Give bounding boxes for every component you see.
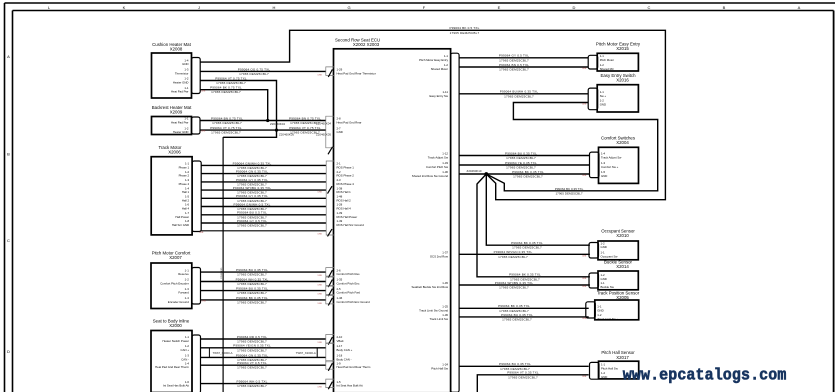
- svg-text:X2017: X2017: [616, 355, 629, 360]
- svg-text:X2000: X2000: [169, 323, 182, 328]
- svg-text:D: D: [573, 5, 576, 10]
- svg-text:Encoder Ground: Encoder Ground: [168, 300, 189, 304]
- svg-text:Hall 2: Hall 2: [182, 198, 190, 202]
- svg-text:X2009: X2009: [170, 109, 183, 114]
- svg-text:Phase 2: Phase 2: [179, 174, 190, 178]
- svg-text:GND: GND: [601, 375, 607, 379]
- svg-text:Comfort Pitch Fwd: Comfort Pitch Fwd: [337, 291, 361, 295]
- svg-text:GND: GND: [337, 130, 343, 134]
- svg-text:10RM: 10RM: [318, 303, 323, 305]
- svg-text:X2002 X2003: X2002 X2003: [353, 42, 380, 47]
- svg-text:P99064 GY 0.5 TXL: P99064 GY 0.5 TXL: [237, 219, 267, 223]
- svg-text:P99064 WH/BU 0.35 TXL: P99064 WH/BU 0.35 TXL: [233, 186, 272, 190]
- svg-text:Z20460K05: Z20460K05: [221, 267, 223, 279]
- svg-text:17965 DEM25CBL7: 17965 DEM25CBL7: [506, 156, 536, 160]
- svg-text:P99064 BN 0.75 TXL: P99064 BN 0.75 TXL: [289, 116, 321, 120]
- svg-text:10RM: 10RM: [199, 232, 204, 234]
- svg-text:P99064 BK 0.35 TXL: P99064 BK 0.35 TXL: [498, 304, 530, 308]
- svg-text:17965 DEM25CBL7: 17965 DEM25CBL7: [237, 366, 267, 370]
- svg-text:17965 DEM25CBL7: 17965 DEM25CBL7: [499, 58, 529, 62]
- svg-text:P99064 BU 0.35 TXL: P99064 BU 0.35 TXL: [505, 151, 537, 155]
- svg-text:17965 DEM25CBL7: 17965 DEM25CBL7: [508, 375, 538, 379]
- svg-text:P99064 VT 0.75 TXL: P99064 VT 0.75 TXL: [215, 76, 247, 80]
- svg-text:Forward: Forward: [178, 291, 189, 295]
- svg-text:17965 DEM25CBL7: 17965 DEM25CBL7: [499, 286, 529, 290]
- svg-text:Comfort Pitch Enc: Comfort Pitch Enc: [337, 282, 360, 286]
- svg-text:10RM: 10RM: [582, 376, 587, 378]
- svg-text:17965 DEM25CBL7: 17965 DEM25CBL7: [237, 291, 267, 295]
- svg-text:P99064 BN 0.5 TXL: P99064 BN 0.5 TXL: [499, 63, 529, 67]
- svg-text:Phase 1: Phase 1: [179, 165, 190, 169]
- svg-text:ROS Hall Power: ROS Hall Power: [337, 215, 358, 219]
- svg-text:17965 DEM25CBL7: 17965 DEM25CBL7: [555, 192, 582, 196]
- svg-text:P99064 BU 0.35 TXL: P99064 BU 0.35 TXL: [501, 313, 533, 317]
- svg-text:P99064 GN/WH 0.5 TXL: P99064 GN/WH 0.5 TXL: [234, 202, 271, 206]
- svg-text:D: D: [7, 349, 10, 354]
- svg-text:Track Adjust Sw: Track Adjust Sw: [428, 156, 449, 160]
- svg-text:X2006: X2006: [168, 149, 181, 154]
- svg-text:ROS Hall Snr Ground: ROS Hall Snr Ground: [337, 223, 365, 227]
- svg-text:GND: GND: [600, 103, 606, 107]
- svg-text:J: J: [198, 5, 200, 10]
- svg-text:P99064 BU 0.35 TXL: P99064 BU 0.35 TXL: [236, 268, 268, 272]
- svg-text:X2010: X2010: [616, 233, 629, 238]
- svg-text:Hall Snr GND: Hall Snr GND: [172, 223, 189, 227]
- svg-text:10RM: 10RM: [582, 175, 587, 177]
- svg-text:Comfort Sw +: Comfort Sw +: [601, 165, 619, 169]
- svg-text:ROS Phase 2: ROS Phase 2: [337, 174, 355, 178]
- svg-text:10RM: 10RM: [582, 68, 587, 70]
- svg-text:P99064 GN 0.35 TXL: P99064 GN 0.35 TXL: [236, 170, 268, 174]
- svg-text:Z20460K05: Z20460K05: [279, 132, 294, 136]
- svg-text:10RM: 10RM: [318, 387, 323, 389]
- svg-text:Hall 4: Hall 4: [182, 207, 190, 211]
- svg-text:P99064 GY 0.35 TXL: P99064 GY 0.35 TXL: [236, 178, 268, 182]
- svg-text:P99064 WH 0.5 TXL: P99064 WH 0.5 TXL: [237, 380, 268, 384]
- svg-text:17965 DEM25CBL7: 17965 DEM25CBL7: [504, 94, 534, 98]
- svg-text:Comfort Pitch Sw: Comfort Pitch Sw: [426, 165, 449, 169]
- svg-text:17965 DEM25CBL7: 17965 DEM25CBL7: [498, 255, 528, 259]
- svg-text:C: C: [7, 238, 10, 243]
- svg-text:GND: GND: [597, 308, 603, 312]
- svg-text:ROS Hall 4: ROS Hall 4: [337, 207, 352, 211]
- svg-text:Int Seat Has Built Att: Int Seat Has Built Att: [337, 384, 363, 388]
- svg-text:17965 DEM25CBL7: 17965 DEM25CBL7: [237, 384, 267, 388]
- svg-text:P99064 BN 0.75 TXL: P99064 BN 0.75 TXL: [211, 116, 243, 120]
- svg-text:17965 DEM25CBL7: 17965 DEM25CBL7: [237, 348, 267, 352]
- svg-text:Pitch Motor: Pitch Motor: [600, 58, 614, 62]
- svg-text:GND: GND: [601, 277, 607, 281]
- svg-text:Phase 4: Phase 4: [179, 182, 190, 186]
- svg-text:Pitch Hall Sw: Pitch Hall Sw: [431, 366, 449, 370]
- svg-text:17965 DEM25CBL7: 17965 DEM25CBL7: [237, 300, 267, 304]
- svg-text:Int Seat Has Built Att: Int Seat Has Built Att: [163, 384, 189, 388]
- svg-text:Shared Mtr: Shared Mtr: [600, 67, 614, 71]
- svg-text:10RM: 10RM: [318, 275, 323, 277]
- svg-text:P99064 YE 0.35 TXL: P99064 YE 0.35 TXL: [505, 161, 537, 165]
- svg-text:ROS Hall 1: ROS Hall 1: [337, 190, 352, 194]
- svg-text:TW67_X2000-A: TW67_X2000-A: [213, 351, 233, 355]
- svg-text:Heater Switch Power: Heater Switch Power: [162, 339, 189, 343]
- svg-text:Reserve: Reserve: [178, 272, 189, 276]
- svg-text:Heat Pad Gnd Rear Therm: Heat Pad Gnd Rear Therm: [337, 365, 372, 369]
- svg-text:17965 DEM25CBL7: 17965 DEM25CBL7: [506, 166, 536, 170]
- svg-text:P99064 WH/BN 0.35 TXL: P99064 WH/BN 0.35 TXL: [495, 281, 534, 285]
- svg-text:P99064 BU/WH 0.35 TXL: P99064 BU/WH 0.35 TXL: [500, 90, 539, 94]
- svg-text:Comfort Pitch Res: Comfort Pitch Res: [337, 272, 361, 276]
- svg-text:Heater GND: Heater GND: [173, 81, 189, 85]
- svg-text:Heat Pad Gnd Rear: Heat Pad Gnd Rear: [337, 121, 362, 125]
- svg-text:Shared 2nd Row Sw Ground: Shared 2nd Row Sw Ground: [412, 174, 449, 178]
- svg-text:Z20460K04: Z20460K04: [316, 122, 331, 126]
- svg-text:Heat Pad Pwr: Heat Pad Pwr: [171, 90, 189, 94]
- svg-text:Track Limit Sw: Track Limit Sw: [429, 317, 448, 321]
- svg-text:GND: GND: [601, 174, 607, 178]
- svg-text:17965 DEM25CBL7: 17965 DEM25CBL7: [211, 90, 241, 94]
- svg-text:10RM: 10RM: [318, 294, 323, 296]
- svg-text:K: K: [123, 5, 126, 10]
- svg-text:Thermistor: Thermistor: [175, 71, 189, 75]
- svg-text:GND: GND: [601, 245, 607, 249]
- svg-text:10RM: 10RM: [318, 342, 323, 344]
- svg-text:P99064 WH/GN 0.35 TXL: P99064 WH/GN 0.35 TXL: [494, 250, 533, 254]
- svg-text:17965 DEM25CBL7: 17965 DEM25CBL7: [212, 121, 242, 125]
- svg-text:Comfort Pitch Enc Ground: Comfort Pitch Enc Ground: [337, 300, 371, 304]
- svg-text:17965 DEM25CBL7: 17965 DEM25CBL7: [512, 246, 542, 250]
- svg-text:CAN +: CAN +: [181, 348, 190, 352]
- svg-text:10RM: 10RM: [318, 285, 323, 287]
- svg-text:P99064 VT 0.75 TXL: P99064 VT 0.75 TXL: [289, 126, 321, 130]
- svg-text:P99064 VT 0.75 TXL: P99064 VT 0.75 TXL: [210, 126, 242, 130]
- svg-text:ROS Hall 2: ROS Hall 2: [337, 198, 352, 202]
- svg-text:P99064 GY 0.35 TXL: P99064 GY 0.35 TXL: [236, 194, 268, 198]
- svg-text:P99064 BK 0.35 TXL: P99064 BK 0.35 TXL: [511, 241, 543, 245]
- svg-text:A: A: [7, 54, 10, 59]
- svg-text:P99064 BK 0.35 TXL: P99064 BK 0.35 TXL: [512, 170, 544, 174]
- svg-text:Buckle Sw: Buckle Sw: [601, 285, 615, 289]
- svg-text:P99064 BK 0.35 TXL: P99064 BK 0.35 TXL: [509, 273, 541, 277]
- svg-text:Seatbelt Buckle Sw 2nd Row: Seatbelt Buckle Sw 2nd Row: [411, 285, 448, 289]
- svg-text:Heat Pad Pwr: Heat Pad Pwr: [171, 121, 189, 125]
- svg-text:Sw +: Sw +: [600, 94, 607, 98]
- svg-text:A: A: [798, 5, 801, 10]
- svg-text:Track Limit Sw +: Track Limit Sw +: [597, 317, 618, 321]
- svg-text:VBatt: VBatt: [337, 339, 344, 343]
- svg-text:10RM: 10RM: [582, 256, 587, 258]
- svg-text:10RM: 10RM: [202, 301, 207, 303]
- svg-text:17965 DEM25CBL7: 17965 DEM25CBL7: [237, 224, 267, 228]
- svg-text:Comfort Pitch Encoder: Comfort Pitch Encoder: [160, 282, 189, 286]
- svg-text:P99064 VT 0.5 TXL: P99064 VT 0.5 TXL: [237, 361, 267, 365]
- svg-text:X2014: X2014: [616, 264, 629, 269]
- svg-text:10RM: 10RM: [582, 318, 587, 320]
- svg-text:Body CAN +: Body CAN +: [337, 348, 353, 352]
- svg-text:P99064 VT 0.35 TXL: P99064 VT 0.35 TXL: [507, 371, 539, 375]
- svg-text:10RM: 10RM: [582, 104, 587, 106]
- svg-text:G: G: [347, 5, 350, 10]
- svg-text:Track Adjust Sw: Track Adjust Sw: [601, 156, 622, 160]
- svg-text:X2004: X2004: [616, 140, 629, 145]
- svg-text:B: B: [723, 5, 726, 10]
- svg-text:17965 DEM25CBL7: 17965 DEM25CBL7: [513, 175, 543, 179]
- svg-text:P99064 WH 0.35 TXL: P99064 WH 0.35 TXL: [236, 277, 269, 281]
- svg-text:17965 DEM25CBL7: 17965 DEM25CBL7: [450, 31, 480, 35]
- svg-text:P99064 GY 0.5 TXL: P99064 GY 0.5 TXL: [499, 54, 529, 58]
- svg-text:Hall 1: Hall 1: [182, 190, 190, 194]
- svg-text:P99064 GN 0.35 TXL: P99064 GN 0.35 TXL: [236, 353, 268, 357]
- svg-text:www.epcatalogs.com: www.epcatalogs.com: [623, 366, 787, 385]
- svg-text:P99064 BK 0.5 TXL: P99064 BK 0.5 TXL: [450, 26, 480, 30]
- svg-text:X2008: X2008: [170, 46, 183, 51]
- svg-text:Easy Entry Sw: Easy Entry Sw: [430, 94, 449, 98]
- svg-text:TW67_X2000-A: TW67_X2000-A: [296, 351, 316, 355]
- svg-text:X2015: X2015: [616, 46, 629, 51]
- svg-text:10RM: 10RM: [201, 131, 206, 133]
- svg-text:P99064 BK 0.35 TXL: P99064 BK 0.35 TXL: [236, 296, 268, 300]
- svg-text:10RM: 10RM: [318, 192, 323, 194]
- svg-text:P99064 OG 0.75 TXL: P99064 OG 0.75 TXL: [238, 67, 271, 71]
- svg-text:17965 DEM25CBL7: 17965 DEM25CBL7: [237, 282, 267, 286]
- svg-text:Shared Motor: Shared Motor: [431, 67, 448, 71]
- svg-text:P99064 BU 0.35 TXL: P99064 BU 0.35 TXL: [499, 362, 531, 366]
- svg-text:GND: GND: [182, 62, 188, 66]
- svg-text:10RM: 10RM: [318, 234, 323, 236]
- svg-text:17965 DEM25CBL7: 17965 DEM25CBL7: [211, 131, 241, 135]
- svg-text:17965 DEM25CBL7: 17965 DEM25CBL7: [499, 68, 529, 72]
- svg-text:17965 DEM25CBL7: 17965 DEM25CBL7: [237, 273, 267, 277]
- svg-text:X2016: X2016: [616, 78, 629, 83]
- svg-text:Hall Power: Hall Power: [175, 215, 189, 219]
- svg-text:17965 DEM25CBL7: 17965 DEM25CBL7: [502, 317, 532, 321]
- svg-text:Track Limit Sw Ground: Track Limit Sw Ground: [419, 308, 448, 312]
- svg-text:P99064 YE/GN 0.35 TXL: P99064 YE/GN 0.35 TXL: [233, 344, 271, 348]
- svg-text:ROS Phase 4: ROS Phase 4: [337, 182, 355, 186]
- svg-text:ROS Phase 1: ROS Phase 1: [337, 165, 355, 169]
- svg-text:17965 DEM25CBL7: 17965 DEM25CBL7: [216, 81, 246, 85]
- svg-text:E: E: [498, 5, 501, 10]
- svg-text:P99064 BU 0.35 TXL: P99064 BU 0.35 TXL: [236, 287, 268, 291]
- svg-text:H: H: [273, 5, 276, 10]
- svg-text:Occupant Sw: Occupant Sw: [601, 254, 619, 258]
- svg-text:Heat Pad Gnd Rear Therm: Heat Pad Gnd Rear Therm: [155, 365, 190, 369]
- svg-text:Z20460K05: Z20460K05: [316, 132, 331, 136]
- svg-text:P99064 BU 0.5 TXL: P99064 BU 0.5 TXL: [237, 211, 267, 215]
- svg-text:P99064 BK 0.75 TXL: P99064 BK 0.75 TXL: [210, 86, 242, 90]
- svg-text:10RM: 10RM: [201, 91, 206, 93]
- svg-text:C: C: [648, 5, 651, 10]
- svg-text:Pitch Hall Sw: Pitch Hall Sw: [601, 366, 619, 370]
- svg-text:P99064 RD 0.5 TXL: P99064 RD 0.5 TXL: [237, 335, 267, 339]
- svg-text:Heater GND: Heater GND: [173, 130, 189, 134]
- svg-text:Pitch Motor Easy Entry: Pitch Motor Easy Entry: [419, 58, 448, 62]
- svg-text:P99064 BK 0.35 TXL: P99064 BK 0.35 TXL: [555, 187, 584, 191]
- svg-text:OCS 2nd Row: OCS 2nd Row: [430, 254, 449, 258]
- svg-text:10RM: 10RM: [582, 286, 587, 288]
- svg-text:17965 DEM25CBL7: 17965 DEM25CBL7: [239, 72, 269, 76]
- svg-text:B: B: [7, 152, 10, 157]
- svg-text:10RM: 10RM: [318, 75, 323, 77]
- svg-text:P99064 GN/WH 0.35 TXL: P99064 GN/WH 0.35 TXL: [233, 161, 272, 165]
- svg-text:Heat Pad Gnd Rear Thermistor: Heat Pad Gnd Rear Thermistor: [337, 71, 376, 75]
- svg-text:Z20460K04: Z20460K04: [270, 122, 285, 126]
- svg-text:Z20460K10: Z20460K10: [467, 169, 482, 173]
- svg-text:X2007: X2007: [169, 255, 182, 260]
- svg-text:10RM: 10RM: [582, 278, 587, 280]
